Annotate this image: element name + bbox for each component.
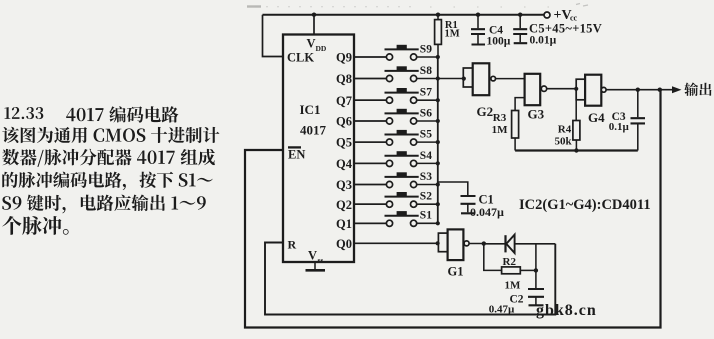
capacitor C2	[528, 289, 544, 305]
svg-text:R: R	[288, 238, 297, 252]
node C4 rail junction	[476, 13, 480, 17]
capacitor C1	[461, 196, 476, 213]
svg-text:Q2: Q2	[336, 198, 352, 212]
switch S4	[354, 150, 438, 167]
capacitor C4	[471, 15, 485, 45]
svg-text:C5+45~+15V: C5+45~+15V	[529, 21, 602, 35]
resistor R4	[573, 121, 580, 151]
svg-text:1M: 1M	[505, 280, 522, 292]
switch S8	[354, 65, 438, 82]
wire G4 input to R4	[575, 89, 577, 121]
node G1 output junction	[482, 241, 486, 245]
switch S7	[354, 87, 438, 104]
svg-text:IC1: IC1	[300, 102, 321, 117]
svg-text:C4: C4	[489, 24, 503, 36]
svg-text:1M: 1M	[492, 124, 509, 136]
junction S5/bus	[436, 140, 440, 144]
pin label VSS	[308, 249, 323, 265]
wire Q1 to S1	[354, 222, 386, 224]
svg-text:4017: 4017	[300, 123, 327, 138]
capacitor C3	[631, 90, 646, 151]
label R4 value	[555, 123, 573, 147]
svg-text:S7: S7	[420, 87, 432, 99]
svg-text:Q4: Q4	[336, 157, 353, 171]
wire Q0 to G1	[354, 242, 438, 244]
switch S9	[354, 43, 438, 60]
svg-text:0.47µ: 0.47µ	[489, 304, 515, 316]
op-amp gate G1	[438, 229, 486, 260]
svg-text:1M: 1M	[445, 29, 460, 40]
wire Q4 to S4	[354, 162, 386, 164]
wire Q5 to S5	[354, 141, 386, 143]
wire G1 out to R2	[484, 244, 502, 271]
svg-text:100µ: 100µ	[487, 36, 511, 48]
svg-text:S6: S6	[420, 107, 432, 119]
label R3 value	[492, 112, 509, 136]
svg-text:50k: 50k	[555, 135, 573, 147]
svg-text:S3: S3	[420, 171, 432, 183]
node R1 rail junction	[436, 13, 440, 17]
node R2/C2 junction	[534, 268, 538, 272]
junction S4/bus	[436, 161, 440, 165]
svg-text:S9: S9	[420, 43, 432, 55]
wire Q7 to S7	[354, 99, 386, 101]
svg-text:DD: DD	[316, 44, 327, 53]
svg-text:S2: S2	[420, 191, 432, 203]
wire EN net (EN pin, bottom rail, right riser)	[245, 90, 661, 328]
diode D1	[486, 235, 555, 253]
switch S3	[354, 171, 438, 188]
wire output net	[606, 89, 673, 91]
terminal +Vcc	[544, 8, 578, 23]
label output	[684, 82, 711, 95]
label C3 value	[609, 111, 630, 133]
op IC1 4017 counter box	[283, 35, 354, 263]
caption title	[4, 106, 178, 122]
node C5 rail junction	[518, 13, 522, 17]
svg-text:EN: EN	[288, 148, 305, 162]
svg-text:Q0: Q0	[336, 237, 352, 251]
svg-text:IC2(G1~G4):CD4011: IC2(G1~G4):CD4011	[519, 197, 651, 213]
node G2 input	[462, 77, 466, 81]
caption line 3	[2, 149, 215, 167]
label C1 value	[470, 193, 504, 219]
wire Q6 to S6	[354, 120, 386, 122]
svg-text:V: V	[307, 36, 316, 50]
node C3 junction	[636, 88, 640, 92]
wire Q3 to S3	[354, 184, 386, 186]
svg-text:G4: G4	[588, 110, 605, 125]
pin label VDD	[307, 36, 327, 53]
op-amp gate G4	[576, 75, 606, 106]
scan artifact top	[247, 4, 588, 8]
wire diode node to C2	[535, 244, 537, 288]
svg-text:R3: R3	[493, 112, 507, 124]
resistor R2	[502, 267, 536, 274]
label R1 value	[445, 20, 460, 40]
caption line 2	[2, 127, 219, 143]
label C4 value	[487, 24, 511, 47]
svg-text:Q8: Q8	[336, 72, 352, 86]
svg-text:Q6: Q6	[336, 115, 352, 129]
node R4 feedback junction	[574, 148, 578, 152]
svg-text:V: V	[308, 249, 317, 263]
op-amp gate G3	[515, 74, 547, 111]
wire key bus	[437, 57, 439, 224]
svg-text:CLK: CLK	[287, 50, 314, 64]
svg-text:Q1: Q1	[336, 217, 352, 231]
svg-text:G2: G2	[477, 104, 494, 119]
wire Q2 to S2	[354, 203, 386, 205]
svg-text:ss: ss	[318, 256, 324, 265]
ground VSS	[306, 262, 326, 270]
svg-text:S1: S1	[420, 210, 432, 222]
wire G2 to G3	[496, 78, 525, 80]
svg-text:Q5: Q5	[336, 136, 352, 150]
svg-text:0.047µ: 0.047µ	[470, 205, 504, 219]
resistor R3	[512, 111, 519, 151]
wire S8 to G2	[438, 78, 464, 80]
wire C1 branch	[438, 182, 468, 195]
node G1 input	[436, 241, 440, 245]
wire G3 to G4	[547, 88, 577, 90]
node output riser junction	[658, 88, 662, 92]
svg-text:G1: G1	[448, 265, 464, 279]
svg-text:gbk8.cn: gbk8.cn	[536, 302, 597, 319]
label C5 value and supply range	[529, 21, 602, 46]
switch S2	[354, 191, 438, 208]
svg-text:Q9: Q9	[336, 51, 352, 65]
caption line 5	[2, 194, 205, 213]
svg-text:0.1µ: 0.1µ	[609, 121, 630, 133]
switch S5	[354, 129, 438, 146]
svg-text:R4: R4	[558, 123, 572, 135]
svg-text:G3: G3	[528, 107, 545, 122]
junction S7/bus	[436, 98, 440, 102]
svg-text:0.01µ: 0.01µ	[530, 34, 557, 46]
capacitor C5	[513, 15, 527, 44]
resistor R1	[435, 15, 442, 57]
junction S8/bus	[436, 76, 440, 80]
label C2 value	[489, 293, 524, 315]
switch S1	[354, 210, 438, 227]
svg-text:Q3: Q3	[336, 178, 352, 192]
wire CLK feed	[263, 15, 284, 57]
svg-text:S5: S5	[420, 129, 432, 141]
caption line 4	[2, 172, 212, 191]
svg-text:R2: R2	[503, 256, 517, 268]
wire Q8 to S8	[354, 78, 386, 80]
junction S6/bus	[436, 119, 440, 123]
svg-text:S8: S8	[420, 65, 432, 77]
junction S9/bus	[436, 55, 440, 59]
pin label EN	[288, 147, 305, 161]
wire +V rail	[263, 14, 545, 16]
node VDD rail junction	[312, 13, 316, 17]
wire feedback rail	[515, 149, 638, 151]
op-amp gate G2	[463, 63, 495, 95]
wire Q9 to S9	[354, 56, 386, 58]
junction S1/bus	[436, 221, 440, 225]
switch S6	[354, 107, 438, 124]
caption line 6	[2, 216, 68, 235]
wire R net (reset pin to diode node)	[265, 243, 555, 315]
output arrow	[672, 86, 682, 93]
label R2 value	[503, 256, 522, 292]
wire VDD stub	[313, 15, 315, 35]
node G4 input	[574, 87, 578, 91]
junction S2/bus	[436, 202, 440, 206]
svg-text:S4: S4	[420, 150, 432, 162]
svg-text:Q7: Q7	[336, 94, 352, 108]
junction S3/bus	[436, 182, 440, 186]
